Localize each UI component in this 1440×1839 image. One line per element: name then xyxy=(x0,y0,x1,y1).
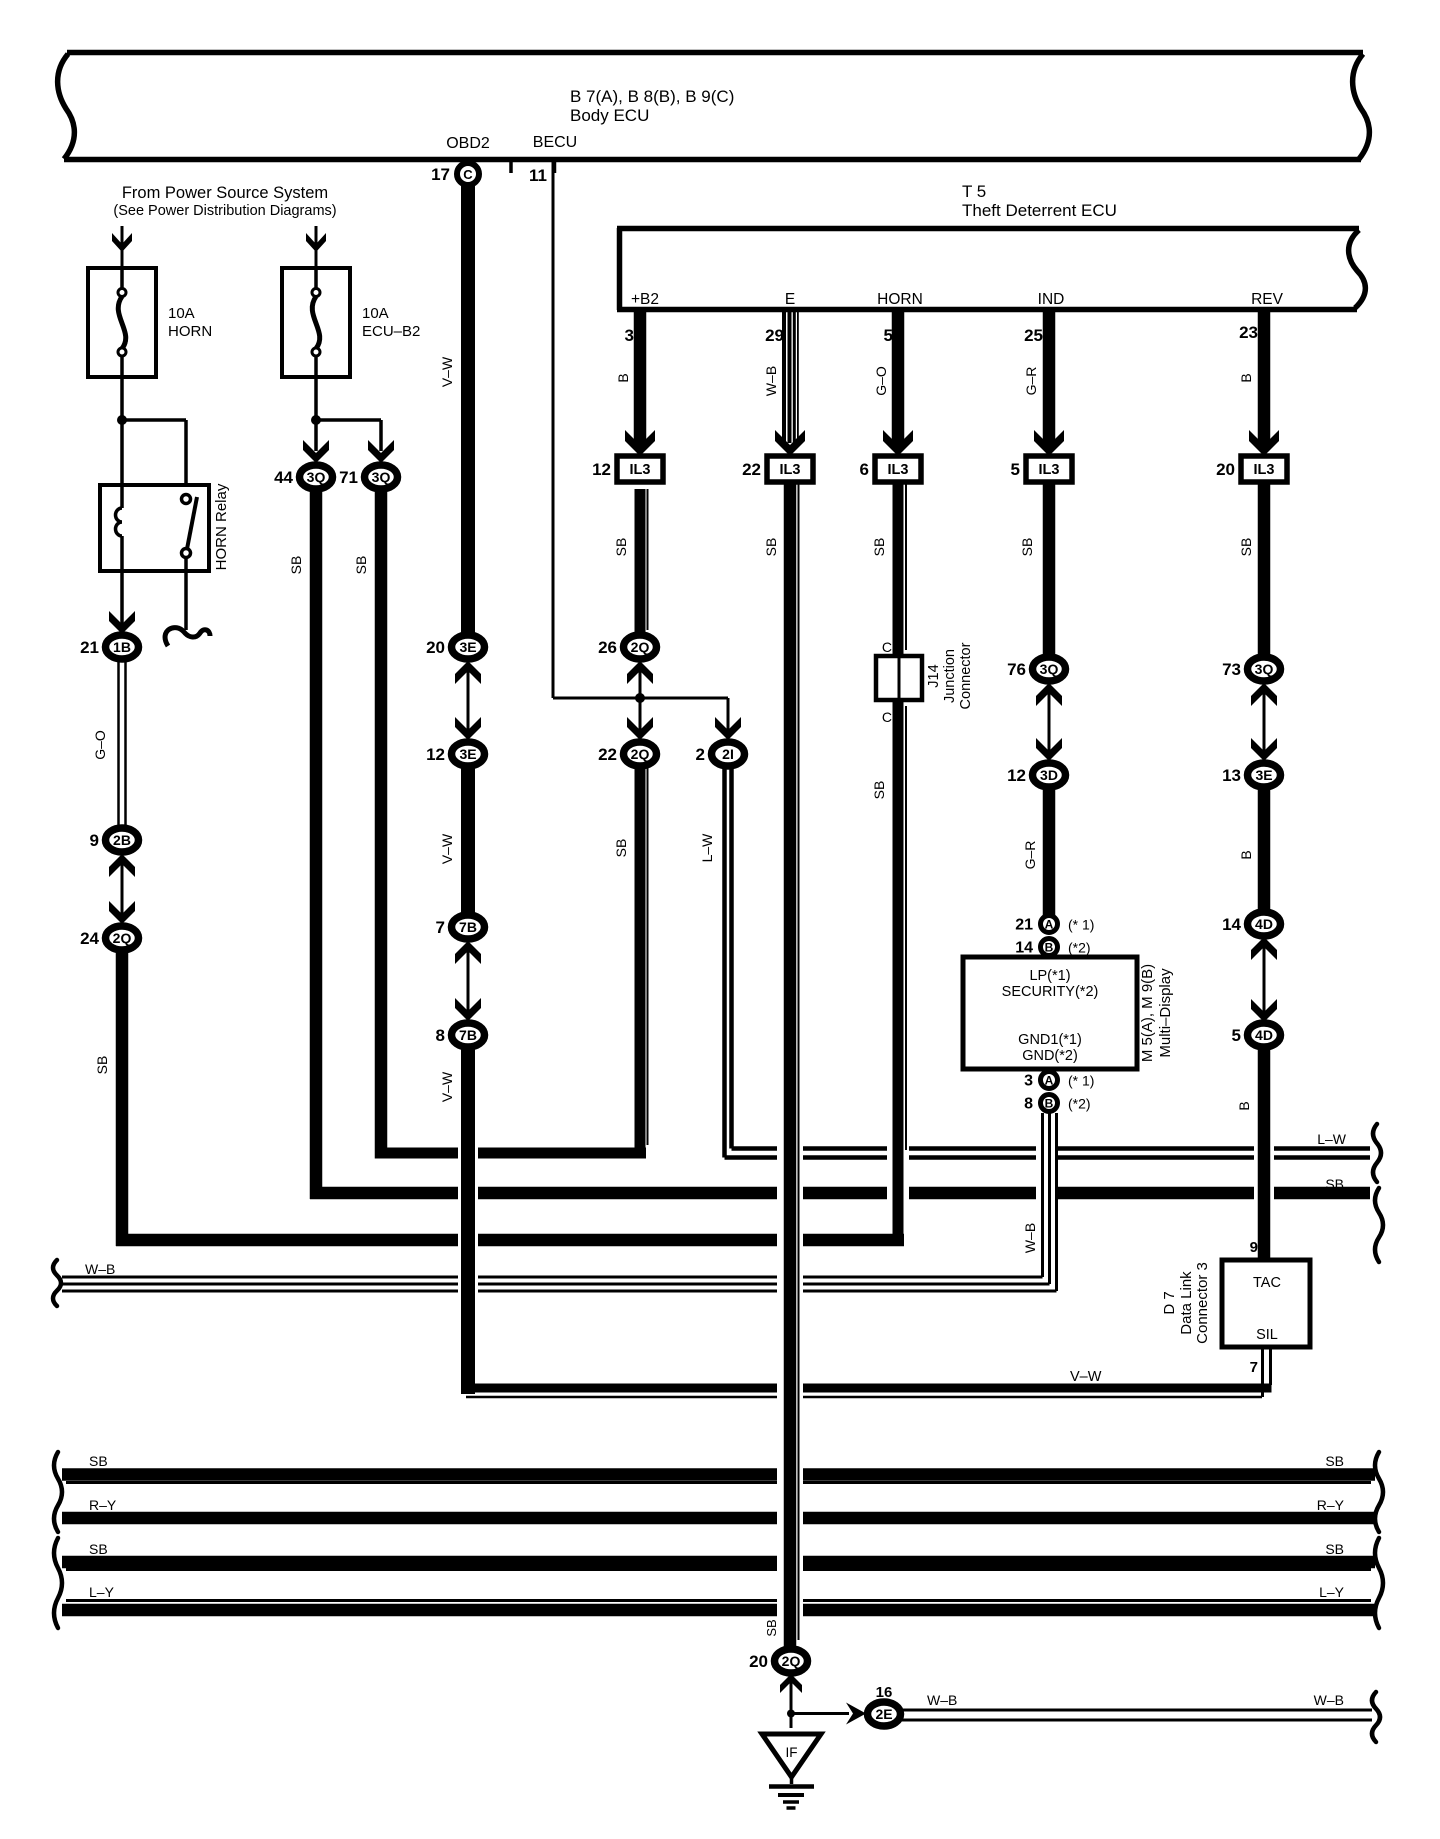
svg-text:(* 1): (* 1) xyxy=(1068,1073,1094,1089)
svg-text:2I: 2I xyxy=(722,746,734,762)
svg-text:SB: SB xyxy=(353,556,369,575)
svg-text:17: 17 xyxy=(431,165,450,184)
svg-text:SECURITY(*2): SECURITY(*2) xyxy=(1002,984,1099,1000)
svg-text:LP(*1): LP(*1) xyxy=(1029,968,1070,984)
svg-text:C: C xyxy=(882,709,892,725)
svg-text:11: 11 xyxy=(529,166,547,185)
svg-text:8: 8 xyxy=(436,1026,445,1045)
svg-text:2Q: 2Q xyxy=(113,930,132,946)
svg-text:73: 73 xyxy=(1222,660,1241,679)
svg-text:J14: J14 xyxy=(926,664,942,687)
svg-text:G–R: G–R xyxy=(1022,841,1038,870)
svg-text:9: 9 xyxy=(1250,1239,1258,1256)
svg-text:M 5(A), M 9(B): M 5(A), M 9(B) xyxy=(1139,964,1156,1062)
svg-text:12: 12 xyxy=(426,745,445,764)
svg-text:SB: SB xyxy=(288,556,304,575)
svg-text:2Q: 2Q xyxy=(631,639,650,655)
svg-text:OBD2: OBD2 xyxy=(446,135,490,152)
svg-text:R–Y: R–Y xyxy=(89,1497,117,1513)
svg-text:L–Y: L–Y xyxy=(89,1584,115,1600)
svg-text:G–O: G–O xyxy=(873,366,889,396)
svg-text:SB: SB xyxy=(613,538,629,557)
svg-text:25: 25 xyxy=(1024,326,1043,345)
svg-text:SB: SB xyxy=(1325,1541,1344,1557)
svg-text:7: 7 xyxy=(436,918,445,937)
svg-text:3Q: 3Q xyxy=(372,469,391,485)
svg-text:21: 21 xyxy=(80,638,99,657)
svg-text:76: 76 xyxy=(1007,660,1026,679)
svg-text:5: 5 xyxy=(884,326,893,345)
svg-text:B: B xyxy=(1045,1097,1054,1111)
svg-text:SB: SB xyxy=(1238,538,1254,557)
svg-text:(*2): (*2) xyxy=(1068,940,1091,956)
svg-text:Multi–Display: Multi–Display xyxy=(1157,968,1174,1058)
svg-text:3E: 3E xyxy=(459,746,476,762)
svg-text:Junction: Junction xyxy=(942,649,958,703)
svg-text:3D: 3D xyxy=(1040,767,1058,783)
svg-text:B: B xyxy=(615,373,631,382)
svg-text:3Q: 3Q xyxy=(1040,661,1059,677)
svg-text:22: 22 xyxy=(742,460,761,479)
svg-text:IND: IND xyxy=(1038,291,1065,308)
svg-text:2: 2 xyxy=(696,745,705,764)
svg-text:HORN: HORN xyxy=(168,323,212,340)
svg-text:From Power Source System: From Power Source System xyxy=(122,184,328,202)
svg-text:V–W: V–W xyxy=(1070,1369,1102,1385)
svg-text:(* 1): (* 1) xyxy=(1068,917,1094,933)
svg-text:T 5: T 5 xyxy=(962,182,986,201)
svg-text:44: 44 xyxy=(274,468,293,487)
svg-text:26: 26 xyxy=(598,638,617,657)
svg-text:6: 6 xyxy=(860,460,869,479)
svg-text:V–W: V–W xyxy=(439,1071,455,1102)
svg-text:16: 16 xyxy=(876,1684,893,1701)
svg-text:W–B: W–B xyxy=(1022,1223,1038,1253)
svg-text:IL3: IL3 xyxy=(630,462,651,478)
svg-text:3: 3 xyxy=(1024,1073,1033,1090)
svg-text:SIL: SIL xyxy=(1256,1327,1278,1343)
svg-text:SB: SB xyxy=(763,538,779,557)
svg-text:C: C xyxy=(882,639,892,655)
svg-text:W–B: W–B xyxy=(927,1692,957,1708)
svg-text:L–Y: L–Y xyxy=(1319,1584,1345,1600)
svg-text:14: 14 xyxy=(1015,940,1033,957)
svg-text:L–W: L–W xyxy=(1317,1131,1347,1147)
svg-text:R–Y: R–Y xyxy=(1317,1497,1345,1513)
svg-text:G–O: G–O xyxy=(92,730,108,760)
svg-text:5: 5 xyxy=(1232,1026,1241,1045)
svg-text:21: 21 xyxy=(1015,917,1033,934)
svg-text:SB: SB xyxy=(871,538,887,557)
svg-text:SB: SB xyxy=(871,781,887,800)
svg-text:C: C xyxy=(463,167,473,182)
svg-text:B: B xyxy=(1238,850,1254,859)
svg-text:G–R: G–R xyxy=(1023,367,1039,396)
svg-text:20: 20 xyxy=(426,638,445,657)
svg-text:BECU: BECU xyxy=(533,134,577,151)
svg-text:20: 20 xyxy=(749,1652,768,1671)
svg-text:(See Power Distribution Diagra: (See Power Distribution Diagrams) xyxy=(113,203,336,219)
svg-text:Body ECU: Body ECU xyxy=(570,106,649,125)
svg-text:W–B: W–B xyxy=(85,1261,115,1277)
svg-text:12: 12 xyxy=(592,460,611,479)
svg-text:L–W: L–W xyxy=(699,833,715,863)
svg-text:7: 7 xyxy=(1250,1359,1258,1376)
svg-text:4D: 4D xyxy=(1255,1027,1273,1043)
svg-text:SB: SB xyxy=(1325,1453,1344,1469)
svg-text:7B: 7B xyxy=(459,919,477,935)
svg-text:24: 24 xyxy=(80,929,99,948)
svg-text:14: 14 xyxy=(1222,915,1241,934)
svg-text:IF: IF xyxy=(786,1745,798,1760)
svg-text:IL3: IL3 xyxy=(1254,462,1275,478)
svg-text:E: E xyxy=(785,291,795,308)
svg-text:V–W: V–W xyxy=(439,833,455,864)
svg-text:3: 3 xyxy=(625,326,634,345)
svg-text:HORN: HORN xyxy=(877,291,923,308)
svg-text:3Q: 3Q xyxy=(307,469,326,485)
svg-text:2Q: 2Q xyxy=(782,1653,801,1669)
svg-text:2E: 2E xyxy=(875,1706,892,1722)
svg-text:SB: SB xyxy=(89,1453,108,1469)
svg-text:IL3: IL3 xyxy=(780,462,801,478)
svg-text:REV: REV xyxy=(1251,291,1284,308)
svg-text:SB: SB xyxy=(89,1541,108,1557)
svg-text:Theft Deterrent ECU: Theft Deterrent ECU xyxy=(962,201,1117,220)
svg-text:10A: 10A xyxy=(362,305,389,322)
svg-text:SB: SB xyxy=(94,1056,110,1075)
svg-text:23: 23 xyxy=(1239,323,1258,342)
svg-text:IL3: IL3 xyxy=(888,462,909,478)
svg-text:3E: 3E xyxy=(459,639,476,655)
svg-text:ECU–B2: ECU–B2 xyxy=(362,323,420,340)
svg-text:10A: 10A xyxy=(168,305,195,322)
svg-text:3Q: 3Q xyxy=(1255,661,1274,677)
svg-text:A: A xyxy=(1045,918,1054,932)
svg-text:TAC: TAC xyxy=(1253,1275,1281,1291)
svg-text:1B: 1B xyxy=(113,639,131,655)
svg-text:IL3: IL3 xyxy=(1039,462,1060,478)
svg-text:B: B xyxy=(1236,1101,1252,1110)
svg-text:9: 9 xyxy=(90,831,99,850)
svg-text:29: 29 xyxy=(765,326,784,345)
svg-text:2Q: 2Q xyxy=(631,746,650,762)
svg-text:W–B: W–B xyxy=(1314,1692,1344,1708)
svg-text:B 7(A), B 8(B), B 9(C): B 7(A), B 8(B), B 9(C) xyxy=(570,87,734,106)
svg-text:5: 5 xyxy=(1011,460,1020,479)
svg-text:SB: SB xyxy=(1325,1176,1344,1192)
svg-text:12: 12 xyxy=(1007,766,1026,785)
svg-text:4D: 4D xyxy=(1255,916,1273,932)
svg-text:7B: 7B xyxy=(459,1027,477,1043)
svg-text:SB: SB xyxy=(1019,538,1035,557)
svg-text:GND(*2): GND(*2) xyxy=(1022,1048,1078,1064)
svg-text:71: 71 xyxy=(339,468,358,487)
svg-text:B: B xyxy=(1045,941,1054,955)
svg-text:3E: 3E xyxy=(1255,767,1272,783)
svg-text:8: 8 xyxy=(1024,1096,1033,1113)
svg-text:22: 22 xyxy=(598,745,617,764)
svg-text:13: 13 xyxy=(1222,766,1241,785)
svg-text:A: A xyxy=(1045,1074,1054,1088)
svg-text:W–B: W–B xyxy=(763,366,779,396)
svg-text:(*2): (*2) xyxy=(1068,1096,1091,1112)
svg-text:Connector: Connector xyxy=(958,642,974,709)
svg-text:+B2: +B2 xyxy=(631,291,659,308)
svg-text:Data Link: Data Link xyxy=(1178,1271,1195,1335)
svg-text:D 7: D 7 xyxy=(1161,1291,1178,1314)
svg-text:V–W: V–W xyxy=(439,356,455,387)
svg-text:20: 20 xyxy=(1216,460,1235,479)
svg-text:HORN Relay: HORN Relay xyxy=(213,483,230,570)
svg-text:Connector 3: Connector 3 xyxy=(1194,1262,1211,1344)
svg-text:SB: SB xyxy=(613,839,629,858)
svg-text:SB: SB xyxy=(764,1619,779,1636)
svg-text:B: B xyxy=(1238,373,1254,382)
svg-text:GND1(*1): GND1(*1) xyxy=(1018,1032,1082,1048)
svg-text:2B: 2B xyxy=(113,832,131,848)
